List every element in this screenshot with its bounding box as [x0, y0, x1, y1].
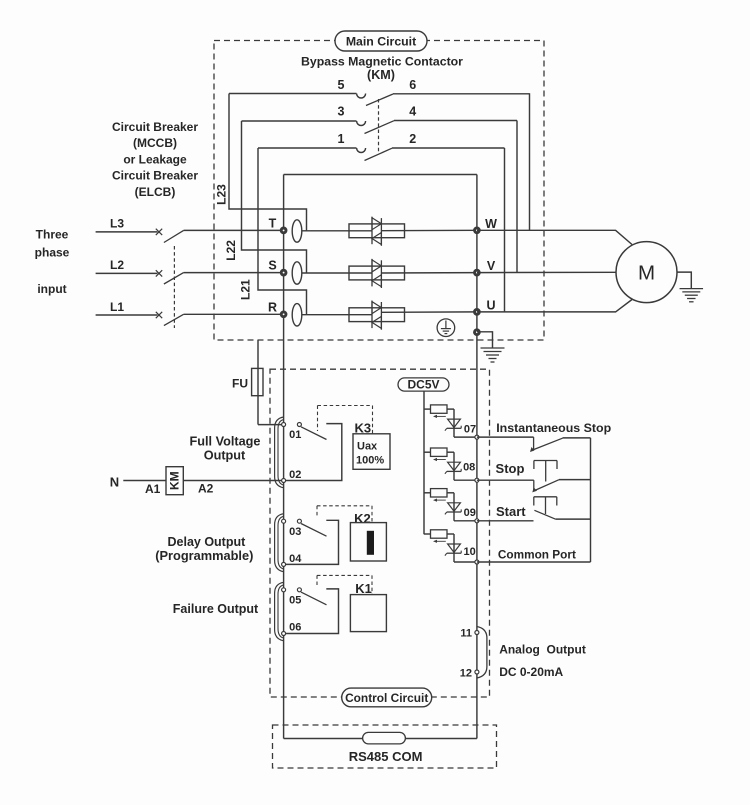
- CT ellipse phase S: [292, 262, 302, 284]
- svg-text:6: 6: [409, 78, 416, 92]
- relay contact 01-02: [286, 423, 342, 481]
- svg-text:(ELCB): (ELCB): [135, 185, 176, 199]
- wire V to motor: [477, 271, 616, 273]
- main circuit dashed border: [214, 41, 544, 341]
- svg-text:DC5V: DC5V: [407, 378, 439, 392]
- relay coil K3 Uax 100%: [353, 434, 390, 470]
- terminal 02: [282, 469, 302, 483]
- svg-text:5: 5: [338, 78, 345, 92]
- connector bracket 05-06: [275, 582, 284, 641]
- switch instantaneous stop: [477, 437, 591, 452]
- svg-text:R: R: [268, 300, 277, 314]
- svg-text:Circuit Breaker: Circuit Breaker: [112, 169, 198, 183]
- svg-text:phase: phase: [35, 246, 70, 260]
- CT ellipse phase T: [292, 220, 302, 242]
- svg-text:A1: A1: [145, 482, 161, 496]
- terminal 11: [460, 627, 479, 639]
- svg-text:L23: L23: [214, 184, 228, 205]
- RS485 dashed border: [273, 725, 497, 768]
- svg-text:Bypass Magnetic Contactor: Bypass Magnetic Contactor: [301, 54, 463, 68]
- thyristor module S-V: [349, 259, 405, 288]
- RS485 oval: [363, 732, 406, 744]
- relay K2 dashed link: [317, 506, 372, 523]
- connector bracket 11-12: [477, 627, 487, 679]
- wire diode to terminal 07: [454, 436, 477, 438]
- wire earth node to ground: [477, 332, 493, 348]
- relay contact 03-04: [286, 519, 339, 564]
- connector bracket 01-02: [275, 417, 284, 488]
- wire common port: [477, 561, 591, 563]
- svg-text:K2: K2: [354, 511, 371, 526]
- svg-text:L21: L21: [239, 279, 253, 300]
- button common rail: [590, 438, 592, 562]
- inner bypass rectangle top wire: [284, 174, 477, 176]
- Control Circuit label oval: [342, 688, 432, 707]
- svg-text:02: 02: [289, 469, 301, 481]
- Main Circuit label oval: [335, 31, 427, 51]
- svg-text:09: 09: [464, 507, 476, 519]
- contactor coil KM: [166, 467, 183, 495]
- wire pole 1 to R line: [258, 148, 307, 314]
- label Circuit Breaker block: [112, 120, 198, 199]
- svg-text:Start: Start: [496, 504, 526, 519]
- svg-text:(KM): (KM): [367, 68, 395, 82]
- svg-text:Full Voltage: Full Voltage: [190, 434, 261, 448]
- svg-text:N: N: [110, 475, 119, 490]
- terminal W: [475, 217, 498, 233]
- thyristor module T-W: [349, 217, 405, 246]
- svg-text:04: 04: [289, 553, 302, 565]
- input branch 09: [424, 489, 454, 521]
- svg-text:Circuit Breaker: Circuit Breaker: [112, 120, 198, 134]
- svg-text:Main Circuit: Main Circuit: [346, 35, 416, 49]
- contactor KM pole 1-2: [258, 132, 505, 161]
- contactor KM pole 3-4: [242, 105, 518, 134]
- ground (starter): [481, 348, 505, 362]
- relay coil K1: [350, 595, 386, 632]
- wire diode to terminal 08: [454, 479, 477, 481]
- svg-text:100%: 100%: [356, 455, 384, 467]
- svg-text:10: 10: [463, 546, 475, 558]
- input branch 07: [424, 405, 454, 437]
- svg-text:(MCCB): (MCCB): [133, 136, 177, 150]
- terminal 08: [463, 461, 479, 482]
- ground (motor): [680, 289, 704, 302]
- svg-text:L22: L22: [224, 240, 238, 261]
- CT ellipse phase R: [292, 304, 302, 326]
- relay contact 05-06: [286, 588, 339, 634]
- svg-text:input: input: [37, 282, 66, 296]
- breaker pole L3: [96, 216, 284, 242]
- terminal S: [268, 259, 286, 275]
- contactor KM pole 5-6: [229, 78, 530, 106]
- control circuit dashed border: [270, 369, 490, 697]
- wire fuse: [257, 340, 259, 425]
- terminal 01: [282, 423, 302, 442]
- relay K1 dashed link: [317, 575, 372, 594]
- svg-text:12: 12: [460, 667, 472, 679]
- wire FU to terminal 01: [258, 424, 284, 426]
- wire KM coil to terminal 02: [183, 480, 283, 482]
- svg-text:K1: K1: [355, 581, 372, 596]
- wire T to thyristor: [302, 230, 372, 232]
- terminal 09: [464, 507, 479, 523]
- wire pole 2 to U line: [504, 148, 506, 312]
- wire N to KM coil: [123, 480, 166, 482]
- connector bracket 03-04: [275, 514, 284, 572]
- wire S to thyristor: [302, 272, 372, 274]
- zener diode 10: [445, 544, 461, 556]
- wire W to motor: [477, 230, 632, 244]
- thyristor module R-U: [349, 301, 405, 330]
- svg-text:Failure Output: Failure Output: [173, 602, 259, 616]
- svg-text:Three: Three: [36, 227, 69, 241]
- svg-text:Instantaneous Stop: Instantaneous Stop: [496, 421, 611, 435]
- svg-text:FU: FU: [232, 377, 248, 391]
- terminal 03: [282, 519, 302, 538]
- wire diode to terminal 10: [454, 561, 477, 563]
- terminal 05: [282, 588, 302, 607]
- svg-text:or Leakage: or Leakage: [123, 152, 187, 166]
- label Delay Output (Programmable): [155, 535, 253, 563]
- svg-text:05: 05: [289, 595, 301, 607]
- svg-text:L1: L1: [110, 300, 124, 314]
- svg-text:1: 1: [338, 132, 345, 146]
- terminal 04: [282, 553, 303, 567]
- wire diode to terminal 09: [454, 520, 477, 522]
- svg-text:Control Circuit: Control Circuit: [345, 691, 428, 705]
- svg-text:Stop: Stop: [496, 461, 525, 476]
- DC5V supply wire: [423, 391, 425, 534]
- wire pole 5 to T line: [229, 94, 307, 231]
- breaker pole L2: [96, 258, 284, 284]
- terminal 07: [464, 424, 479, 440]
- contactor linkage dashed line: [378, 99, 380, 152]
- svg-text:Analog Output: Analog Output: [499, 643, 586, 657]
- svg-text:L3: L3: [110, 216, 124, 230]
- svg-text:W: W: [485, 217, 497, 231]
- wire pole 4 to V line: [516, 121, 518, 273]
- input branch 10: [424, 530, 454, 562]
- right phase bus W-V-U: [476, 175, 478, 739]
- input branch 08: [424, 448, 454, 480]
- relay K3 dashed link: [318, 406, 373, 434]
- svg-text:07: 07: [464, 424, 476, 436]
- svg-text:DC 0-20mA: DC 0-20mA: [499, 665, 563, 679]
- terminal V: [475, 259, 496, 275]
- svg-text:RS485 COM: RS485 COM: [349, 749, 423, 764]
- wire pole 3 to S line: [242, 121, 307, 273]
- earth node: [475, 330, 480, 335]
- wire U to motor: [477, 300, 632, 312]
- breaker linkage dashed line: [173, 246, 175, 328]
- wire motor to ground: [677, 272, 691, 289]
- svg-text:Uax: Uax: [357, 441, 378, 453]
- svg-text:Common Port: Common Port: [498, 547, 576, 561]
- terminal R: [268, 300, 286, 316]
- wire pole 6 to W line: [529, 93, 531, 230]
- svg-text:T: T: [269, 216, 277, 230]
- left phase bus T-S-R: [283, 175, 285, 739]
- fuse FU: [232, 368, 263, 395]
- control circuit bottom wire: [284, 738, 477, 740]
- svg-text:3: 3: [338, 105, 345, 119]
- svg-text:M: M: [638, 262, 655, 285]
- zener diode 09: [445, 503, 461, 515]
- svg-text:A2: A2: [198, 482, 214, 496]
- breaker pole L1: [96, 300, 284, 325]
- DC5V label oval: [398, 378, 449, 392]
- svg-text:S: S: [268, 259, 276, 273]
- terminal 12: [460, 667, 479, 679]
- wire R to thyristor: [302, 314, 372, 316]
- terminal T: [269, 216, 286, 232]
- svg-text:L2: L2: [110, 258, 124, 272]
- wire thyristor to W: [381, 229, 477, 231]
- svg-text:2: 2: [409, 132, 416, 146]
- terminal 06: [282, 621, 302, 635]
- svg-text:V: V: [487, 259, 496, 273]
- svg-text:U: U: [486, 298, 495, 312]
- svg-text:03: 03: [289, 526, 301, 538]
- label Three phase input: [35, 227, 70, 295]
- svg-text:Output: Output: [204, 448, 246, 462]
- zener diode 07: [445, 419, 461, 431]
- svg-text:01: 01: [289, 429, 301, 441]
- svg-text:08: 08: [463, 461, 475, 473]
- svg-text:KM: KM: [167, 471, 181, 490]
- terminal 10: [463, 546, 478, 564]
- circled earth symbol: [437, 319, 455, 337]
- wire thyristor to V: [381, 272, 477, 274]
- relay coil K2: [350, 523, 386, 561]
- pushbutton start (NO): [477, 497, 591, 521]
- zener diode 08: [445, 462, 461, 474]
- svg-text:06: 06: [289, 621, 301, 633]
- svg-text:11: 11: [460, 627, 472, 639]
- svg-text:(Programmable): (Programmable): [155, 548, 253, 563]
- terminal U: [475, 298, 496, 314]
- motor M: [616, 242, 677, 303]
- svg-text:4: 4: [409, 105, 416, 119]
- pushbutton stop (NC): [477, 461, 591, 493]
- wire thyristor to U: [381, 311, 477, 313]
- label Full Voltage Output: [190, 434, 261, 462]
